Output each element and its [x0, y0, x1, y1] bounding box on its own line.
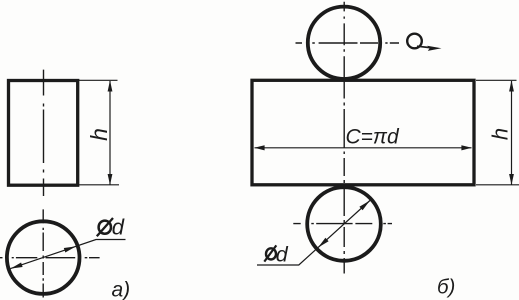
base circle bottom — [307, 187, 381, 261]
svg-text:б): б) — [437, 276, 455, 299]
vertical centerline of circle (left figure) — [42, 209, 44, 297]
arrowhead up (h right) — [509, 80, 514, 91]
extension line bottom (h dimension) — [78, 184, 119, 186]
arrowhead upper-right (Od right) — [359, 201, 370, 211]
extension line bottom right (h dimension) — [476, 184, 519, 186]
arrowhead lower-left (Od right) — [318, 238, 329, 248]
horizontal centerline of bottom circle — [293, 223, 392, 225]
horizontal centerline of circle (left figure) — [0, 257, 100, 259]
diameter symbol slash (left) — [97, 218, 113, 236]
arrowhead lower-left (Od left) — [11, 263, 23, 269]
arrowhead upper-right (Od left) — [64, 246, 76, 252]
rolling circle top — [308, 7, 380, 79]
dimension line C=pi*d — [255, 147, 472, 149]
svg-text:h: h — [488, 128, 513, 140]
extension line top right (h dimension) — [476, 79, 517, 81]
Q arrow tail — [417, 46, 432, 48]
extension line top (h dimension) — [78, 79, 118, 81]
horizontal centerline of top circle — [296, 42, 400, 44]
diameter symbol slash (right) — [264, 245, 276, 261]
label Od (right figure): diameter symbol — [266, 248, 276, 259]
vertical centerline below rectangle (bottom circle) — [343, 187, 345, 274]
arrowhead down (h left) — [108, 174, 113, 185]
vertical centerline above rectangle (top circle) — [343, 2, 345, 79]
diameter dimension line Od (right figure) — [257, 201, 370, 266]
dimension line h (right figure) — [511, 81, 513, 185]
svg-text:h: h — [86, 128, 112, 141]
Q arrowhead — [427, 46, 441, 51]
svg-text:C=πd: C=πd — [346, 125, 400, 148]
dimension line h (left figure) — [109, 81, 111, 185]
arrowhead down (h right) — [509, 174, 514, 185]
svg-text:а): а) — [112, 279, 131, 300]
rotation symbol Q — [407, 34, 422, 49]
vertical centerline inside rectangle — [343, 80, 345, 183]
svg-text:d: d — [276, 243, 289, 267]
vertical centerline of front view — [43, 70, 45, 196]
arrowhead left (C) — [254, 145, 264, 150]
svg-text:d: d — [112, 215, 125, 240]
label Od (left figure): diameter symbol — [99, 221, 111, 234]
top view circle (left figure) — [7, 221, 80, 294]
arrowhead up (h left) — [108, 80, 113, 91]
development rectangle — [252, 80, 474, 185]
cylinder front view rectangle — [9, 81, 78, 186]
arrowhead right (C) — [461, 145, 471, 150]
diameter dimension line Od (left figure) — [11, 240, 126, 269]
